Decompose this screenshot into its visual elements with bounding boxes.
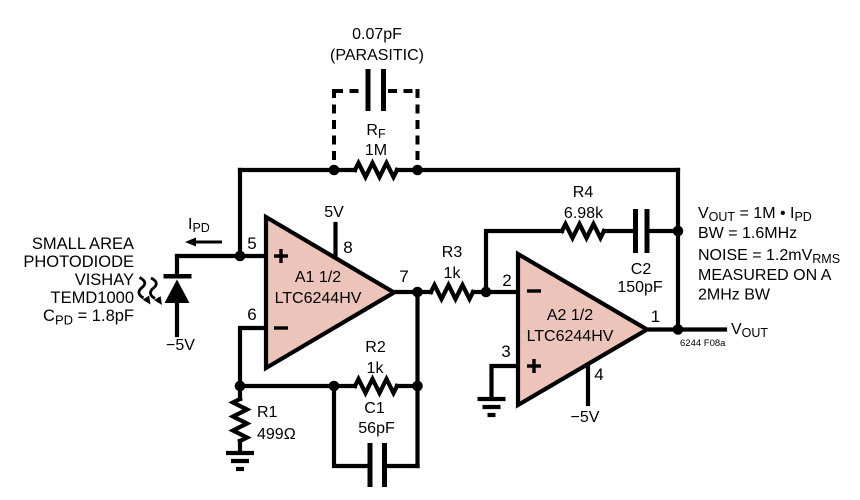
- svg-text:7: 7: [399, 267, 408, 286]
- svg-text:(PARASITIC): (PARASITIC): [330, 47, 424, 64]
- svg-text:1: 1: [651, 307, 660, 326]
- svg-text:56pF: 56pF: [358, 420, 395, 437]
- svg-text:−5V: −5V: [166, 337, 195, 354]
- svg-text:SMALL AREA: SMALL AREA: [32, 235, 134, 253]
- svg-text:3: 3: [501, 342, 510, 361]
- svg-text:R3: R3: [442, 244, 463, 261]
- svg-text:BW = 1.6MHz: BW = 1.6MHz: [698, 225, 797, 242]
- svg-text:2: 2: [502, 271, 511, 290]
- svg-text:C2: C2: [631, 261, 652, 278]
- svg-text:1M: 1M: [365, 142, 387, 159]
- svg-text:A1 1/2: A1 1/2: [295, 269, 341, 286]
- svg-text:VISHAY: VISHAY: [75, 271, 134, 289]
- svg-text:R2: R2: [365, 339, 386, 356]
- svg-text:8: 8: [343, 238, 352, 257]
- svg-text:1k: 1k: [444, 265, 462, 282]
- svg-text:5V: 5V: [324, 204, 344, 221]
- svg-text:0.07pF: 0.07pF: [352, 26, 402, 43]
- svg-text:150pF: 150pF: [617, 279, 663, 296]
- svg-text:499Ω: 499Ω: [257, 426, 296, 443]
- svg-text:R1: R1: [257, 404, 278, 421]
- svg-text:MEASURED ON A: MEASURED ON A: [698, 267, 832, 284]
- svg-text:PHOTODIODE: PHOTODIODE: [23, 253, 134, 271]
- svg-text:C1: C1: [364, 400, 385, 417]
- svg-text:LTC6244HV: LTC6244HV: [527, 328, 614, 345]
- svg-text:R4: R4: [573, 184, 594, 201]
- svg-text:6244 F08a: 6244 F08a: [680, 338, 726, 349]
- svg-text:5: 5: [247, 234, 256, 253]
- svg-text:−5V: −5V: [571, 409, 600, 426]
- svg-text:6.98k: 6.98k: [564, 205, 604, 222]
- svg-text:4: 4: [594, 365, 603, 384]
- svg-text:TEMD1000: TEMD1000: [51, 289, 134, 307]
- svg-text:1k: 1k: [367, 360, 385, 377]
- svg-text:A2 1/2: A2 1/2: [547, 307, 593, 324]
- svg-text:2MHz BW: 2MHz BW: [698, 287, 771, 304]
- svg-text:LTC6244HV: LTC6244HV: [275, 290, 362, 307]
- svg-text:6: 6: [247, 305, 256, 324]
